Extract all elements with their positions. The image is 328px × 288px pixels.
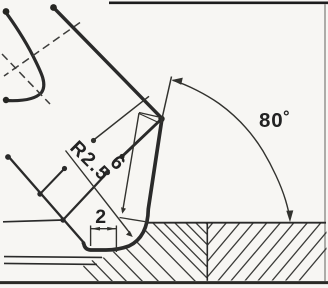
tick 1 on edge L (40, 169, 65, 195)
main diagonal edge (53, 7, 162, 119)
dashed centerline D1 (4, 23, 80, 77)
hatching left region (backslash direction) (62, 221, 260, 285)
R2.5 leader upper segment to main diagonal (93, 96, 149, 140)
arc start arrowhead (172, 78, 183, 85)
2 arrows (91, 227, 100, 231)
thin horizontal line lower (4, 263, 97, 264)
6 bottom extension (120, 218, 148, 223)
hatching right region (slash direction) (163, 222, 328, 282)
2 dimension line (91, 228, 116, 230)
big arc top-left with end dots (6, 12, 44, 101)
dashed centerline D2 (2, 54, 50, 104)
perpendicular tick at vertex (122, 119, 162, 157)
R2.5 leader lower segment to fillet (66, 151, 132, 235)
80 deg dimension arc (173, 80, 290, 218)
dimension 6: line (123, 113, 140, 212)
top border line (109, 1, 328, 4)
2 extension lines (90, 226, 92, 247)
arc end arrowhead (286, 210, 293, 222)
thin horizontal line upper left (surface) (3, 220, 63, 222)
svg-text:2: 2 (95, 206, 106, 228)
vertical joint line in hatch (206, 223, 208, 281)
steep groove face + fillet + groove bottom + small left fillet (83, 119, 162, 251)
tick 2 on edge L (63, 173, 108, 221)
6 top wedge lines (139, 113, 161, 118)
80 deg extension line above vertex (161, 77, 172, 124)
horizontal surface line (top of hatched block) (147, 222, 326, 224)
bottom border line (0, 281, 328, 284)
6 bottom arrowhead (121, 207, 126, 214)
edge L diagonal lower-left (8, 156, 85, 244)
svg-text:80˚: 80˚ (259, 109, 291, 132)
right border line (324, 4, 326, 281)
thin horizontal line mid (4, 256, 102, 259)
